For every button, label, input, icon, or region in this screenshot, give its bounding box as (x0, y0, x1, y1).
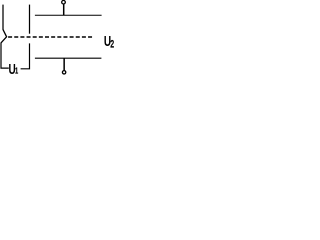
switch S1 lever chevron (1, 30, 7, 43)
wire bottom terminal stem (63, 58, 65, 70)
bottom terminal circle (62, 71, 65, 74)
svg-text:2: 2 (110, 38, 114, 50)
wire left switch bottom lead with corner into bottom line (1, 43, 9, 69)
label U2 (104, 32, 111, 50)
wire bottom rail (35, 57, 102, 59)
svg-text:1: 1 (15, 65, 18, 76)
wire bottom connecting line right piece with corner (21, 43, 30, 68)
wire left switch top lead (2, 5, 4, 30)
dashed mechanical coupling line (8, 36, 92, 38)
wire top terminal stem (63, 4, 65, 16)
label U1 (9, 60, 16, 78)
wire top rail (35, 14, 102, 16)
top terminal circle (62, 0, 66, 4)
wire right switch top lead (29, 5, 31, 34)
